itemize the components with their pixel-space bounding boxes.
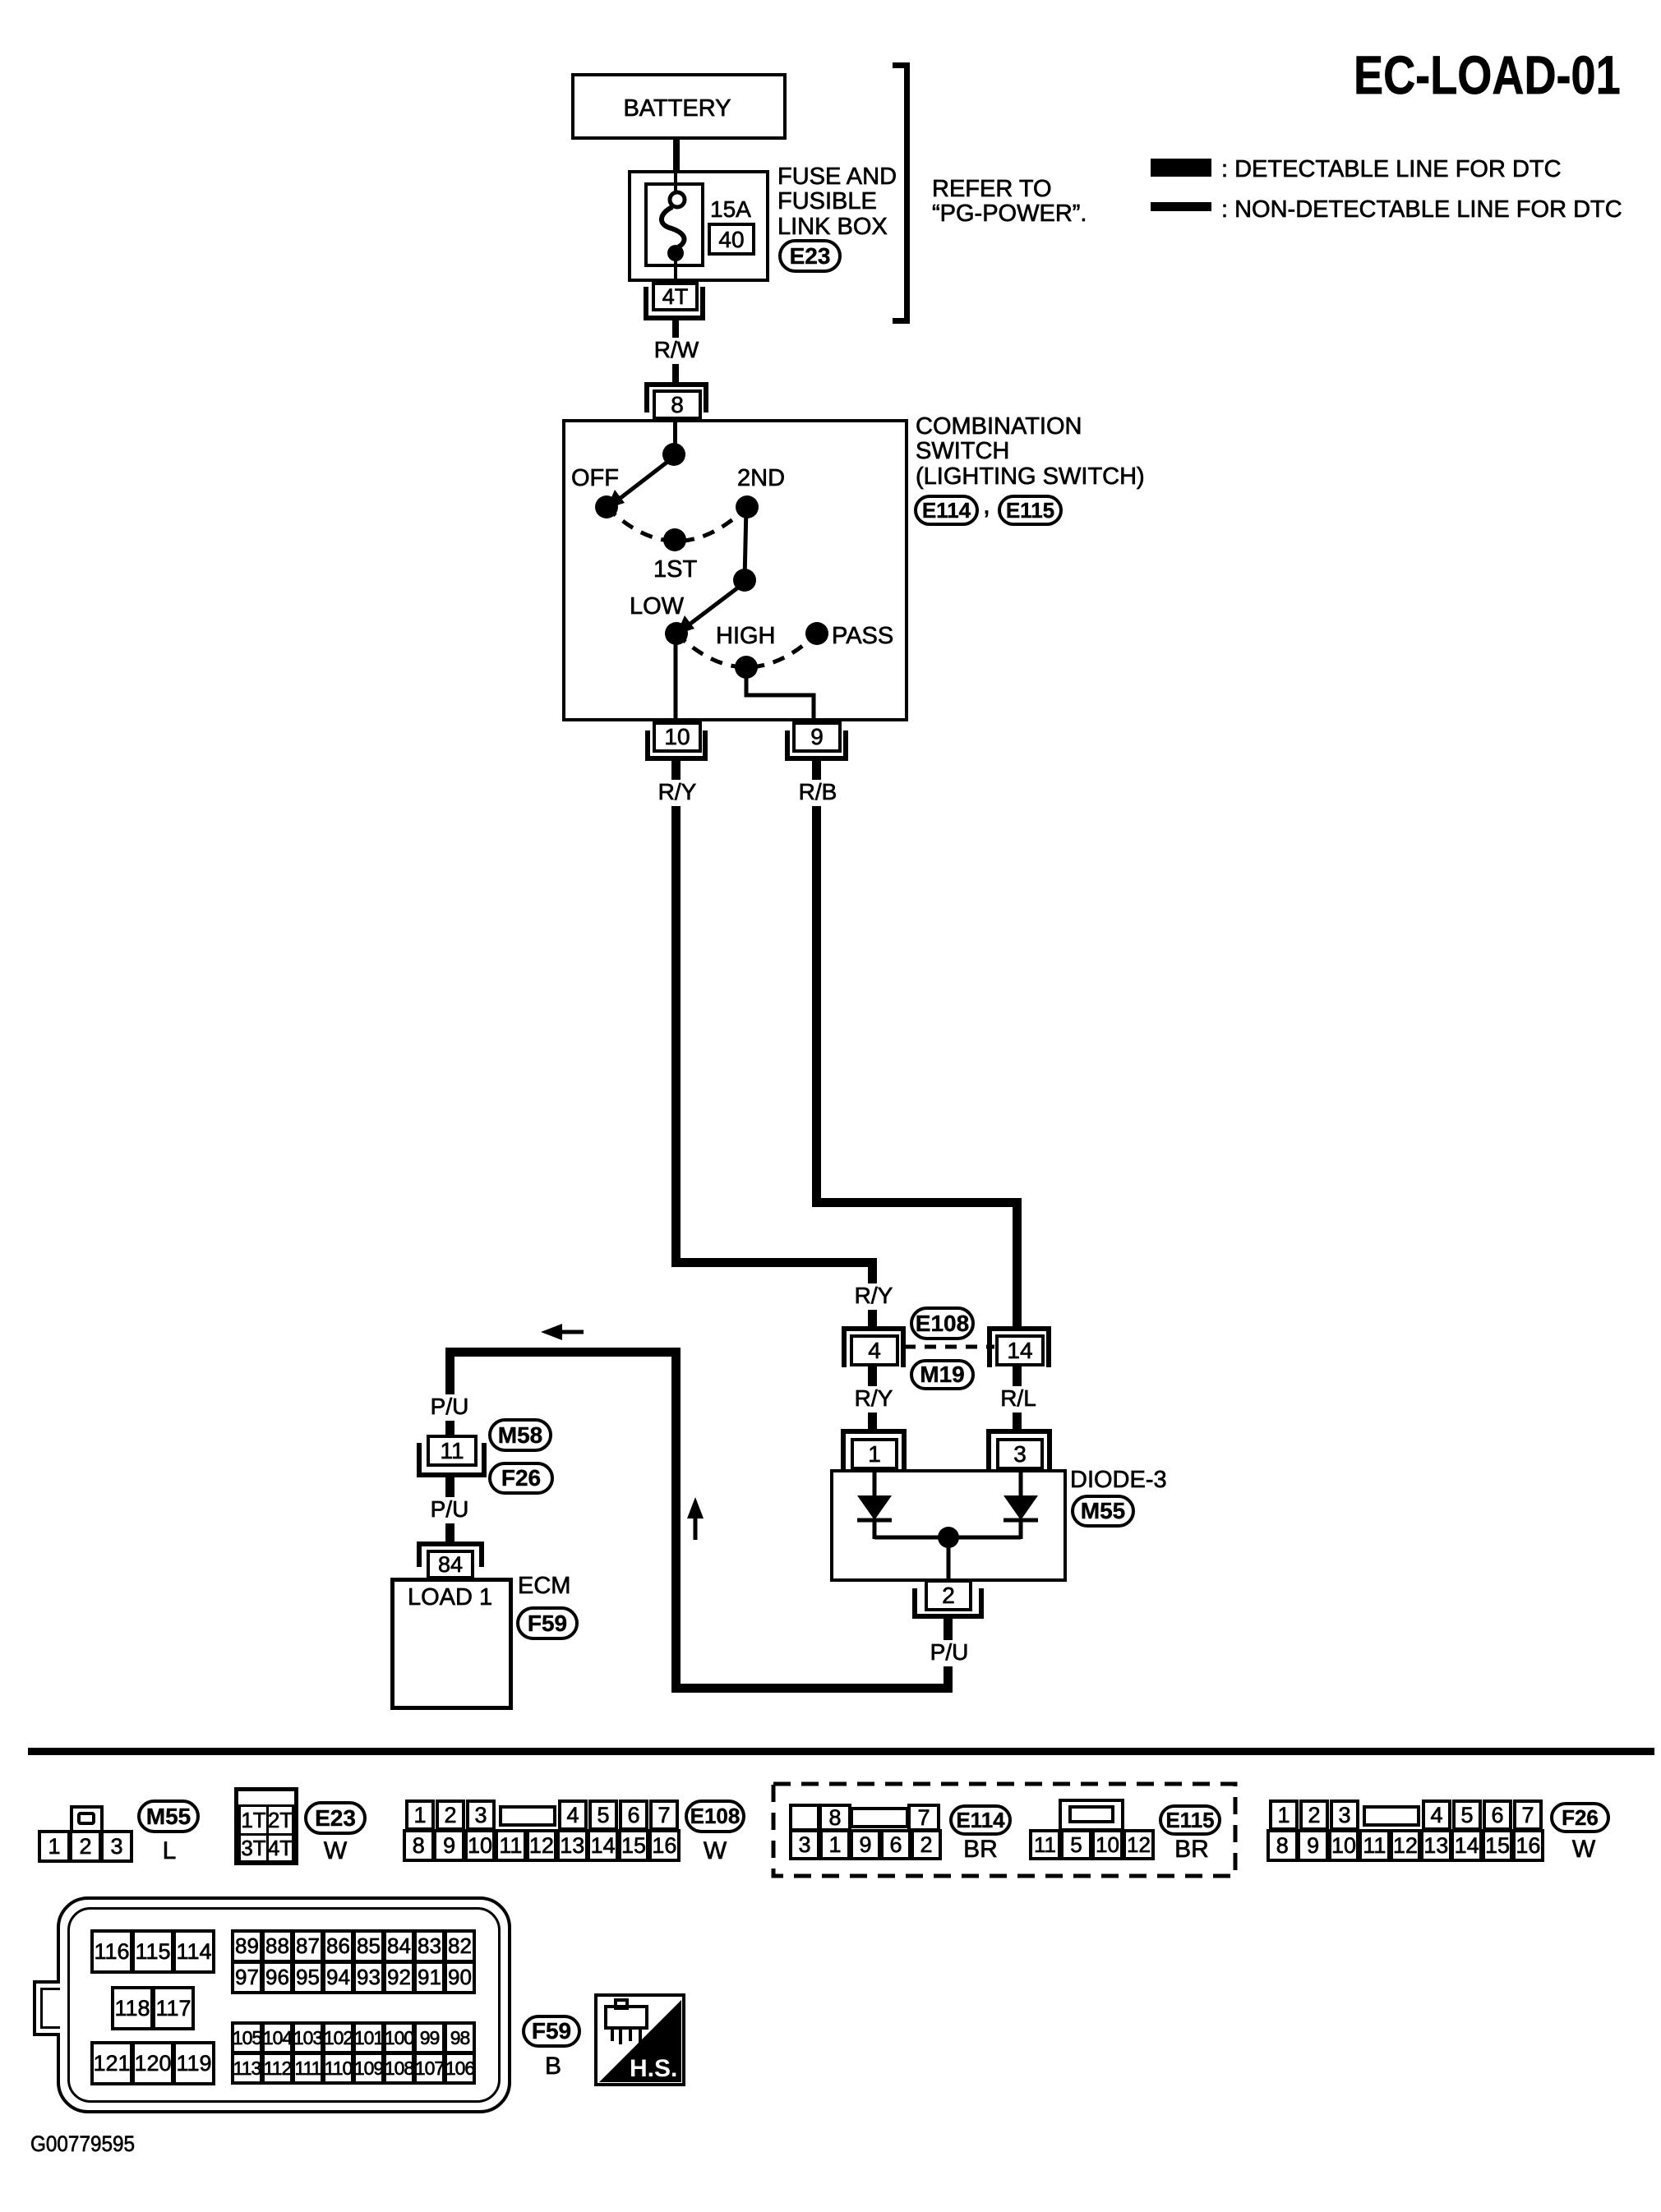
color code L <box>160 1838 179 1864</box>
fuse element outline <box>644 182 704 267</box>
wire connector10 down <box>671 761 681 780</box>
junction node dot <box>938 1527 959 1548</box>
connector oval F59 inline <box>516 1606 579 1640</box>
bracket vertical <box>904 62 910 324</box>
connector oval E114 <box>914 495 979 526</box>
connector oval F26 view <box>1550 1802 1610 1833</box>
legend thin non-detectable-line sample <box>1151 202 1211 211</box>
fuse symbol 15A <box>633 181 731 279</box>
connector view E108 top pins 1 2 3 <box>405 1800 435 1831</box>
connector 4 bracket right <box>901 1326 906 1367</box>
wire label R/Y 2 <box>852 1283 896 1307</box>
switch wire from pin 8 <box>673 420 677 449</box>
connector 14 bracket top <box>987 1326 1051 1331</box>
connector 3 bracket right <box>1047 1429 1052 1470</box>
wire R/B long vertical <box>812 806 821 1207</box>
dashed arc LOW-HIGH-PASS <box>676 634 817 667</box>
connector oval E23 <box>778 239 842 273</box>
wire HIGH down right <box>746 667 814 721</box>
color code W E108 <box>701 1838 729 1864</box>
ECM pins 118 117 <box>111 1986 154 2030</box>
wire R/L to connector 3 <box>1013 1412 1022 1430</box>
connector view F26 top pins 4 5 6 7 <box>1422 1800 1451 1831</box>
wire R/W to connector 8 <box>672 364 679 384</box>
connector 4 bracket top <box>842 1326 906 1331</box>
fuse lead bottom <box>674 257 677 282</box>
flow arrow up <box>684 1497 708 1543</box>
wire top-left horizontal run <box>445 1348 681 1357</box>
connector 14 bracket left <box>987 1326 992 1367</box>
connector 4T box <box>652 282 699 311</box>
diode D1 left <box>857 1469 892 1539</box>
cathode bus wire <box>874 1536 1021 1540</box>
connector view M55 key <box>77 1812 95 1825</box>
wire label P/U left upper <box>428 1394 472 1418</box>
wire battery to fuse box <box>673 136 680 171</box>
separator rule <box>28 1748 1654 1755</box>
color code BR E115 <box>1172 1836 1211 1863</box>
contact dot HIGH <box>735 656 758 679</box>
connector 11 bracket right <box>482 1443 487 1477</box>
connector 10 bracket bottom <box>645 756 708 761</box>
switch position label 2ND <box>737 466 785 491</box>
contact dot pivot <box>733 569 756 592</box>
connector 14 bracket right <box>1046 1326 1051 1367</box>
label fuse and fusible link box <box>777 164 897 239</box>
wire R/Y to connector 1 <box>868 1412 877 1430</box>
contact dot LOW <box>665 622 688 645</box>
fuse rating 15A <box>710 197 751 221</box>
figure id G00779595 <box>30 2132 135 2155</box>
connector 8 bracket top <box>644 382 708 387</box>
color code W F26 <box>1570 1836 1598 1863</box>
connector view F26 keyway <box>1363 1805 1420 1827</box>
connector view M55 pins 1 2 3 <box>38 1830 71 1863</box>
connector view F26 bottom pins 8-16 <box>1267 1829 1299 1862</box>
connector 1 bracket right <box>902 1429 907 1470</box>
wire LOW down <box>674 634 678 721</box>
dashed harness line between connector 4 and 14 <box>904 1342 994 1352</box>
connector 2 bracket right <box>979 1588 984 1619</box>
connector 2 bracket left <box>912 1588 917 1619</box>
connector oval E115 view <box>1159 1804 1221 1836</box>
connector view E108 keyway <box>499 1805 556 1827</box>
wire connector14 down <box>1013 1366 1022 1386</box>
connector 11 bracket bottom <box>417 1472 487 1477</box>
wire junction to pin 2 <box>947 1537 951 1582</box>
bracket top stub <box>893 62 907 68</box>
label DIODE-3 <box>1070 1468 1167 1492</box>
contact dot 2ND <box>736 495 759 518</box>
wire left vertical run <box>671 1348 681 1693</box>
label combination switch <box>916 414 1145 489</box>
ECM pins 105-98 / 113-106 <box>231 2021 263 2054</box>
switch position label 1ST <box>653 557 697 582</box>
label LOAD 1 <box>408 1585 492 1610</box>
connector 3 box <box>996 1438 1044 1470</box>
connector 8 bracket left <box>644 382 649 412</box>
wire R/B drop to connector14 <box>1013 1198 1022 1328</box>
connector view E114 top row <box>789 1804 820 1832</box>
wire connector11 down <box>445 1477 454 1497</box>
wire label R/Y 3 <box>852 1386 896 1410</box>
connector 10 bracket left <box>645 730 650 761</box>
ECM pins 89-82 / 97-90 <box>231 1929 263 1963</box>
wire R/Y to connector4 <box>868 1310 877 1328</box>
connector 10 bracket right <box>703 730 708 761</box>
contact dot PASS <box>805 622 828 645</box>
wire down to P/U label <box>445 1357 454 1395</box>
connector 2 box <box>925 1579 972 1611</box>
switch contacts and wiper arrows <box>559 411 920 731</box>
connector 1 bracket top <box>841 1429 907 1434</box>
legend text non-detectable <box>1221 197 1622 222</box>
wire label R/W <box>652 338 701 362</box>
wire 4T to R/W <box>672 320 679 338</box>
connector view M55 pin cavity <box>70 1805 104 1833</box>
dashed harness group box <box>771 1781 1239 1880</box>
connector view E23 outline <box>234 1787 298 1865</box>
connector oval M19 inline <box>910 1359 975 1390</box>
color code W E23 <box>321 1838 349 1864</box>
wire bottom horizontal run <box>671 1684 953 1693</box>
connector view E108 top pins 4 5 6 7 <box>558 1800 588 1831</box>
connector 3 bracket left <box>986 1429 991 1470</box>
connector 4 box <box>850 1334 899 1366</box>
fuse number box <box>708 223 755 256</box>
ECM connector F59 inner shell <box>67 1907 501 2103</box>
connector oval F26 inline <box>488 1462 554 1495</box>
wire label R/Y <box>656 780 699 804</box>
connector view E108 bottom pins 8-16 <box>403 1829 435 1862</box>
connector 1 box <box>851 1438 898 1470</box>
flow arrow left <box>541 1321 584 1343</box>
bracket bottom stub <box>893 318 907 324</box>
connector oval F59 view <box>522 2015 581 2048</box>
wire R/Y elbow horizontal <box>671 1258 877 1267</box>
connector 4T bracket left <box>644 287 648 320</box>
diode pair and junction <box>828 1468 1075 1587</box>
wire label R/B <box>796 780 840 804</box>
connector 4 bracket left <box>842 1326 847 1367</box>
title EC-LOAD-01 <box>1354 47 1621 104</box>
connector 9 bracket left <box>785 730 790 761</box>
connector 2 bracket bottom <box>912 1614 984 1619</box>
connector 4T bracket right <box>700 287 705 320</box>
connector oval M58 <box>488 1418 552 1452</box>
wire P/U to connector 11 <box>445 1421 454 1437</box>
connector view F26 top pins 1 2 3 <box>1269 1800 1299 1831</box>
connector oval E23 view <box>304 1801 367 1835</box>
connector 3 bracket top <box>986 1429 1052 1434</box>
connector oval E114 view <box>949 1804 1012 1836</box>
battery box <box>571 73 787 140</box>
legend text detectable <box>1221 157 1562 182</box>
fuse lead top <box>674 170 677 194</box>
connector 8 bracket right <box>704 382 708 412</box>
connector 4T bracket bottom <box>644 316 705 320</box>
wire 2ND down to pivot <box>745 507 746 580</box>
connector view E115 bottom pins 11 5 10 12 <box>1029 1829 1061 1860</box>
switch position label OFF <box>571 466 619 491</box>
contact dot 1ST <box>663 528 686 551</box>
ECM connector F59 outer shell <box>57 1896 511 2113</box>
connector view E115 top key <box>1059 1799 1124 1832</box>
ECM pins 116 115 114 <box>90 1929 133 1974</box>
connector 84 bracket right <box>479 1541 484 1567</box>
battery label <box>621 96 733 121</box>
wire label P/U <box>928 1640 971 1664</box>
combination switch box <box>562 419 908 721</box>
ECM pins 121 120 119 <box>90 2041 133 2085</box>
label ECM <box>518 1574 570 1598</box>
color code BR E114 <box>961 1836 1000 1863</box>
switch position label HIGH <box>716 624 776 648</box>
ECM connector F59 left tab <box>33 1980 60 2036</box>
connector oval M55 view <box>137 1800 200 1833</box>
wire R/B elbow horizontal <box>812 1198 1022 1207</box>
connector 11 box <box>427 1435 478 1467</box>
wire R/Y drop <box>868 1258 877 1283</box>
diode-3 box M55 <box>830 1469 1067 1582</box>
wire R/Y long vertical <box>671 806 681 1263</box>
connector oval M55 inline <box>1071 1495 1135 1528</box>
wiper arrow to LOW <box>676 583 745 634</box>
fuse number 40 <box>716 228 746 251</box>
wire connector9 down <box>812 761 821 780</box>
dashed arc OFF-1ST-2ND <box>607 507 747 541</box>
wire label P/U left lower <box>428 1497 472 1521</box>
label refer to pg-power <box>932 177 1087 227</box>
connector oval E108 inline <box>910 1306 975 1340</box>
contact dot OFF <box>595 495 618 518</box>
diode D2 right <box>1004 1469 1038 1539</box>
svg-text:H.S.: H.S. <box>630 2055 677 2082</box>
contact dot common feed <box>662 443 685 466</box>
connector 10 box <box>653 721 702 753</box>
wiper arrow to OFF <box>607 457 674 509</box>
connector 84 bracket top <box>417 1541 484 1546</box>
connector 9 bracket right <box>843 730 848 761</box>
H.S. hand-symbol icon <box>594 1993 686 2087</box>
connector 11 bracket left <box>417 1443 422 1477</box>
wire P/U to bottom run <box>944 1666 953 1684</box>
comma between E114 E115 <box>983 491 990 519</box>
connector view E114 bottom pins 3 1 9 6 2 <box>789 1829 820 1860</box>
connector 84 bracket left <box>417 1541 422 1567</box>
connector oval E108 view <box>685 1800 745 1833</box>
connector 84 box <box>427 1550 474 1579</box>
connector 9 box <box>792 721 842 753</box>
connector 14 box <box>995 1334 1045 1366</box>
load 1 ECM box <box>390 1578 513 1710</box>
wire connector2 down <box>944 1619 953 1640</box>
legend thick detectable-line sample <box>1151 159 1211 177</box>
switch position label LOW <box>630 594 684 619</box>
wire connector4 down <box>868 1366 877 1386</box>
connector oval E115 <box>998 495 1063 526</box>
connector 9 bracket bottom <box>785 756 848 761</box>
connector 1 bracket left <box>841 1429 846 1470</box>
switch position label PASS <box>832 624 893 648</box>
wire label R/L <box>998 1386 1039 1410</box>
wire P/U to connector 84 <box>445 1523 454 1542</box>
connector 8 box <box>653 389 702 420</box>
color code B F59 <box>542 2053 564 2080</box>
fuse box outline E23 <box>628 170 769 282</box>
connector view E23 pins 1T 2T 3T 4T <box>238 1804 269 1836</box>
